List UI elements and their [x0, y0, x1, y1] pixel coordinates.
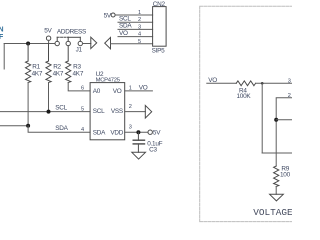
svg-text:100: 100 — [280, 171, 291, 178]
svg-text:1: 1 — [138, 10, 141, 16]
svg-text:A0: A0 — [93, 88, 101, 95]
svg-text:R3: R3 — [73, 64, 81, 71]
wire SDA jog to U2 — [28, 126, 90, 133]
svg-text:5: 5 — [81, 106, 84, 112]
svg-text:CN2: CN2 — [153, 1, 166, 8]
node rail junction — [26, 42, 30, 46]
svg-text:2: 2 — [138, 17, 141, 23]
svg-text:SDA: SDA — [55, 125, 68, 132]
svg-text:3: 3 — [288, 78, 291, 84]
svg-text:J1: J1 — [76, 47, 83, 54]
svg-text:3: 3 — [138, 24, 141, 30]
svg-text:1: 1 — [129, 85, 132, 91]
svg-text:MCP4725: MCP4725 — [96, 77, 121, 83]
svg-text:2: 2 — [129, 104, 132, 110]
connector CN2 — [152, 1, 167, 55]
wire SDA stub to CN2 pin 3 — [118, 28, 153, 30]
wire 5V to CN2 pin 1 — [115, 14, 153, 16]
svg-text:5V: 5V — [44, 27, 52, 34]
wire SCL stub to CN2 pin 2 — [118, 21, 153, 23]
node SCL junction — [47, 110, 51, 114]
wire op-amp pin 2 — [276, 98, 292, 166]
svg-text:VSS: VSS — [111, 108, 123, 115]
wire left stub — [3, 44, 5, 70]
resistor R3 — [66, 46, 84, 83]
svg-text:VO: VO — [139, 84, 148, 91]
svg-text:SDA: SDA — [93, 130, 106, 137]
svg-text:SCL: SCL — [119, 16, 131, 23]
svg-text:6: 6 — [81, 86, 84, 92]
svg-text:VO: VO — [208, 77, 217, 84]
wire bottom feedback — [262, 152, 292, 154]
svg-text:SIP5: SIP5 — [152, 48, 166, 55]
svg-text:3: 3 — [129, 125, 132, 131]
IC U2 MCP4725 — [90, 71, 125, 140]
svg-text:2: 2 — [288, 93, 291, 99]
svg-text:R1: R1 — [32, 64, 40, 71]
svg-text:VO: VO — [113, 88, 122, 95]
svg-text:VOLTAGE: VOLTAGE — [253, 207, 292, 218]
svg-text:4K7: 4K7 — [73, 71, 84, 78]
svg-text:5V: 5V — [153, 130, 161, 137]
svg-text:VDD: VDD — [110, 130, 123, 137]
svg-text:C3: C3 — [149, 147, 157, 154]
node VDD junction — [136, 130, 140, 134]
ground (R9) — [270, 194, 284, 201]
wire R1 to SDA node — [27, 83, 29, 126]
resistor R2 — [46, 44, 64, 83]
wire 5V top rail — [4, 43, 55, 45]
power 5V symbol (CN2 pin 1) — [104, 12, 116, 19]
wire R2 to SCL node — [48, 83, 50, 112]
node SDA junction — [26, 124, 30, 128]
wire R4 node down — [261, 83, 263, 153]
wire R3 to A0 pin 6 — [68, 83, 90, 91]
svg-text:ADDRESS: ADDRESS — [57, 29, 86, 36]
svg-text:5: 5 — [138, 39, 141, 45]
capacitor C3 — [133, 132, 162, 153]
svg-text:VO: VO — [119, 30, 128, 37]
svg-text:4: 4 — [81, 127, 84, 133]
wire J1 to arrow — [83, 43, 91, 45]
wire SDA branch from left — [0, 125, 28, 127]
resistor R4 — [236, 81, 255, 100]
ground (C3) — [132, 152, 146, 159]
svg-text:R2: R2 — [53, 64, 61, 71]
power 5V symbol (VDD) — [148, 130, 161, 137]
connector arrow right — [91, 37, 97, 48]
dashed box voltage reference — [200, 6, 292, 221]
svg-text:4: 4 — [138, 32, 141, 38]
wire VO stub to CN2 pin 4 — [118, 36, 153, 38]
svg-text:4K7: 4K7 — [53, 71, 64, 78]
wire arrow to CN2 pin 5 — [111, 43, 153, 45]
power 5V symbol (pullup rail) — [44, 27, 52, 43]
jumper J1 — [55, 37, 83, 53]
svg-text:100K: 100K — [237, 93, 252, 100]
svg-text:SCL: SCL — [55, 104, 67, 111]
wire U2 VO pin 1 — [125, 90, 153, 92]
resistor R1 — [26, 44, 43, 83]
wire junction to output — [276, 119, 292, 121]
wire U2 VDD pin 3 — [125, 131, 148, 133]
wire U2 VSS pin 2 — [125, 111, 146, 113]
wire VO to R4 — [207, 82, 236, 84]
wire R9 to ground — [275, 187, 277, 195]
connector arrow left — [105, 37, 111, 48]
ground arrow right (VSS) — [145, 105, 151, 118]
resistor R9 — [274, 166, 291, 187]
svg-text:5V: 5V — [104, 12, 112, 19]
svg-text:4K7: 4K7 — [32, 71, 43, 78]
svg-text:SDA: SDA — [119, 23, 132, 30]
node inverting input junction — [274, 118, 278, 122]
svg-text:SCL: SCL — [93, 108, 105, 115]
wire R4 to op-amp pin 3 — [256, 82, 292, 84]
wire SCL rail — [0, 111, 90, 113]
node R4 tee — [261, 82, 264, 85]
